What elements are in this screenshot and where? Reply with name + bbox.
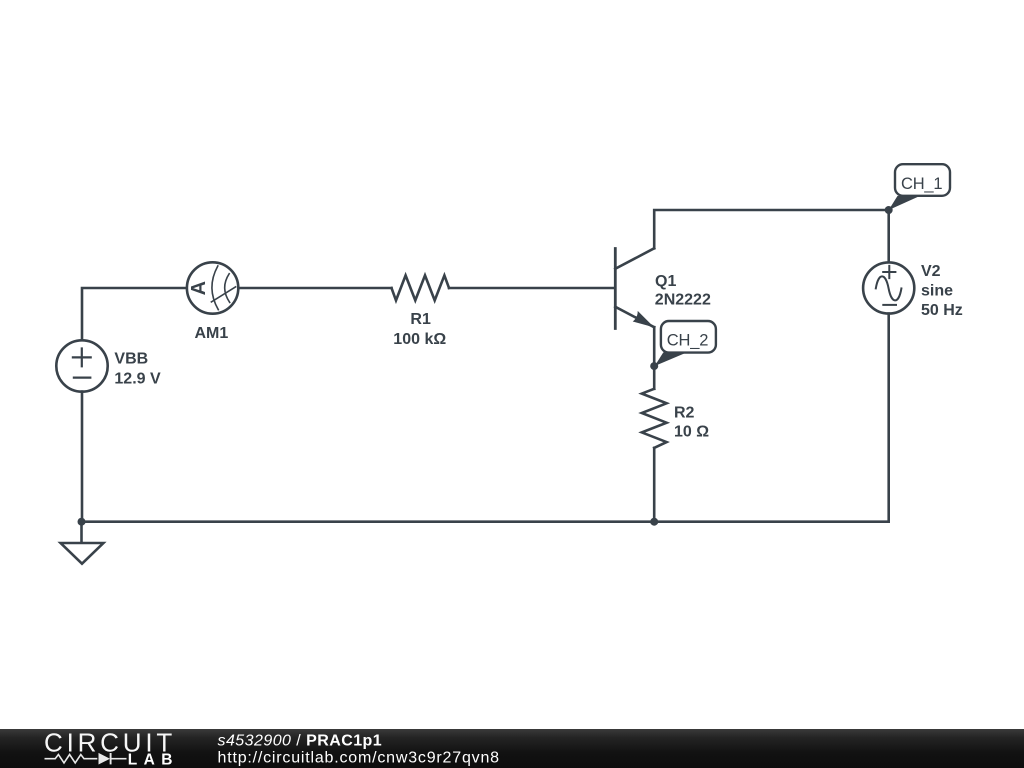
- svg-text:A: A: [188, 281, 210, 295]
- wire V2 bottom to rail: [887, 314, 890, 522]
- wire R2 to rail: [653, 448, 656, 522]
- wire VBB bottom to rail: [81, 392, 84, 522]
- wire R1 to Q1 base: [449, 287, 614, 290]
- node CH_2: [650, 362, 658, 370]
- svg-text:http://circuitlab.com/cnw3c9r2: http://circuitlab.com/cnw3c9r27qvn8: [218, 750, 500, 767]
- wire bottom rail: [82, 520, 889, 523]
- logo diode triangle: [99, 753, 111, 765]
- svg-text:R2: R2: [674, 404, 695, 421]
- wire ammeter to R1: [239, 287, 391, 290]
- ammeter AM1: [187, 262, 238, 313]
- svg-text:s4532900 / PRAC1p1: s4532900 / PRAC1p1: [218, 732, 383, 749]
- node rail R2: [650, 518, 658, 526]
- wire rail to ground: [80, 522, 83, 543]
- svg-text:AM1: AM1: [195, 325, 229, 342]
- svg-text:V2: V2: [921, 263, 941, 280]
- source VBB: [56, 340, 107, 391]
- wire Q1 emitter to node CH_2: [653, 327, 656, 366]
- svg-text:10 Ω: 10 Ω: [674, 423, 709, 440]
- footer bar: [0, 729, 1024, 768]
- resistor R1: [392, 275, 450, 300]
- svg-text:LAB: LAB: [128, 751, 179, 768]
- wire node to R2: [653, 366, 656, 389]
- flag CH_1: [889, 164, 950, 210]
- transistor Q1: [615, 248, 654, 328]
- svg-text:sine: sine: [921, 282, 953, 299]
- resistor R2: [642, 389, 667, 448]
- source V2: [863, 262, 914, 313]
- logo squiggle resistor-diode: [45, 753, 127, 764]
- node top-right: [885, 206, 893, 214]
- svg-text:100 kΩ: 100 kΩ: [393, 331, 446, 348]
- wire Q1 collector to node CH_1: [654, 210, 889, 248]
- flag CH_2: [655, 321, 716, 366]
- svg-text:CH_2: CH_2: [667, 332, 708, 350]
- ground: [61, 543, 104, 564]
- Q1 emitter arrow: [633, 311, 655, 328]
- svg-text:R1: R1: [410, 311, 431, 328]
- svg-text:12.9 V: 12.9 V: [114, 371, 161, 388]
- svg-text:CH_1: CH_1: [901, 175, 942, 193]
- svg-text:VBB: VBB: [114, 351, 148, 368]
- node rail VBB: [78, 518, 86, 526]
- svg-text:2N2222: 2N2222: [655, 292, 711, 309]
- svg-text:50 Hz: 50 Hz: [921, 302, 963, 319]
- svg-text:Q1: Q1: [655, 273, 676, 290]
- wire VBB top to ammeter: [82, 288, 186, 340]
- wire node to V2 top: [887, 210, 890, 262]
